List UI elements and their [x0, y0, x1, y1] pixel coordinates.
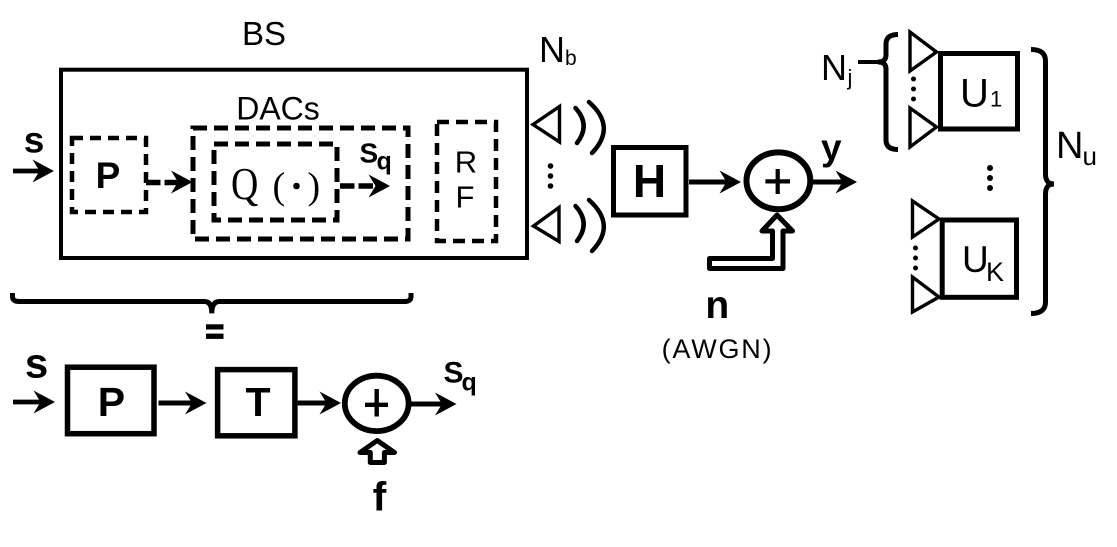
- svg-text:b: b: [565, 47, 577, 70]
- svg-text:K: K: [986, 257, 1004, 287]
- svg-text:(AWGN): (AWGN): [662, 334, 774, 364]
- svg-text:H: H: [633, 155, 666, 207]
- svg-text:T: T: [245, 379, 270, 425]
- svg-text:S: S: [360, 138, 379, 169]
- svg-text:P: P: [96, 155, 121, 196]
- svg-text:): ): [308, 166, 321, 208]
- svg-text:q: q: [377, 148, 392, 176]
- svg-text:u: u: [1083, 141, 1097, 171]
- svg-text:N: N: [539, 29, 565, 70]
- svg-text:N: N: [1056, 125, 1083, 167]
- svg-text:U: U: [962, 239, 989, 280]
- svg-text:N: N: [821, 47, 847, 88]
- svg-text:P: P: [98, 379, 125, 425]
- svg-text:Q: Q: [231, 159, 258, 209]
- svg-text:R: R: [455, 145, 477, 180]
- svg-text:S: S: [444, 357, 464, 390]
- svg-text:DACs: DACs: [236, 91, 320, 127]
- svg-text:BS: BS: [242, 15, 286, 52]
- svg-text:U: U: [960, 72, 989, 116]
- svg-text:1: 1: [990, 87, 1002, 112]
- svg-text:s: s: [25, 340, 48, 387]
- svg-text:s: s: [24, 120, 45, 161]
- svg-text:F: F: [456, 180, 475, 215]
- svg-text:n: n: [705, 284, 729, 327]
- svg-text:y: y: [821, 127, 842, 168]
- svg-text:f: f: [373, 474, 387, 520]
- svg-text:(: (: [273, 166, 286, 208]
- svg-text:j: j: [847, 65, 853, 90]
- svg-text:q: q: [462, 369, 477, 397]
